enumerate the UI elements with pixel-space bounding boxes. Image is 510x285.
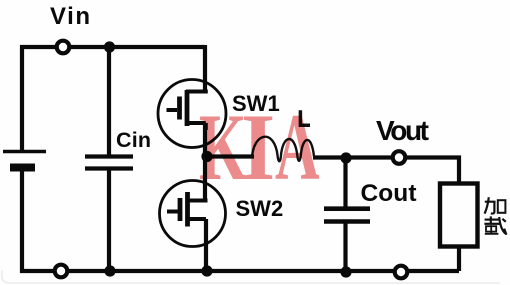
加 xyxy=(485,197,489,213)
node junction dots xyxy=(104,41,352,277)
wire output xyxy=(313,158,459,185)
terminal Vout xyxy=(393,151,406,164)
terminal Vin xyxy=(57,41,70,54)
transistor SW2 xyxy=(160,181,226,247)
wire SW2 drain xyxy=(203,156,207,201)
node top Cin junction xyxy=(104,41,115,52)
capacitor Cout xyxy=(324,209,370,222)
card bottom border xyxy=(2,270,500,283)
node switch node xyxy=(201,151,212,162)
wire Cout branch xyxy=(343,158,347,271)
node bottom Cout junction xyxy=(340,266,351,277)
svg-text:Vin: Vin xyxy=(50,3,90,30)
svg-text:I: I xyxy=(241,94,275,200)
terminal bottom right xyxy=(395,266,408,279)
svg-text:A: A xyxy=(275,96,320,200)
node bottom SW2 junction xyxy=(201,265,212,276)
wire bottom rail xyxy=(20,269,459,273)
wire SW2 source xyxy=(204,219,208,271)
wire top rail xyxy=(22,47,205,152)
svg-text:Vout: Vout xyxy=(376,115,429,146)
svg-text:Cout: Cout xyxy=(361,180,417,207)
wire switch node xyxy=(205,123,254,158)
wire load bottom xyxy=(457,246,461,271)
watermark KIA xyxy=(199,94,320,201)
wire SW1 drain xyxy=(203,45,207,92)
wire Cin branch top xyxy=(107,47,111,157)
wire battery to bottom rail xyxy=(20,168,24,273)
label 加载 (load) xyxy=(484,197,506,235)
battery B1 xyxy=(3,152,46,168)
load box xyxy=(440,184,478,247)
terminal bottom left xyxy=(55,265,68,278)
transistor SW1 xyxy=(158,80,226,148)
inductor L1 xyxy=(252,137,314,162)
label L xyxy=(300,110,310,125)
svg-text:K: K xyxy=(199,96,247,201)
capacitor Cin xyxy=(85,157,133,169)
node Vout junction xyxy=(340,152,351,163)
载 xyxy=(490,216,492,223)
svg-text:Cin: Cin xyxy=(116,128,151,152)
node bottom Cin junction xyxy=(104,265,115,276)
wire Cin branch bottom xyxy=(107,168,111,271)
